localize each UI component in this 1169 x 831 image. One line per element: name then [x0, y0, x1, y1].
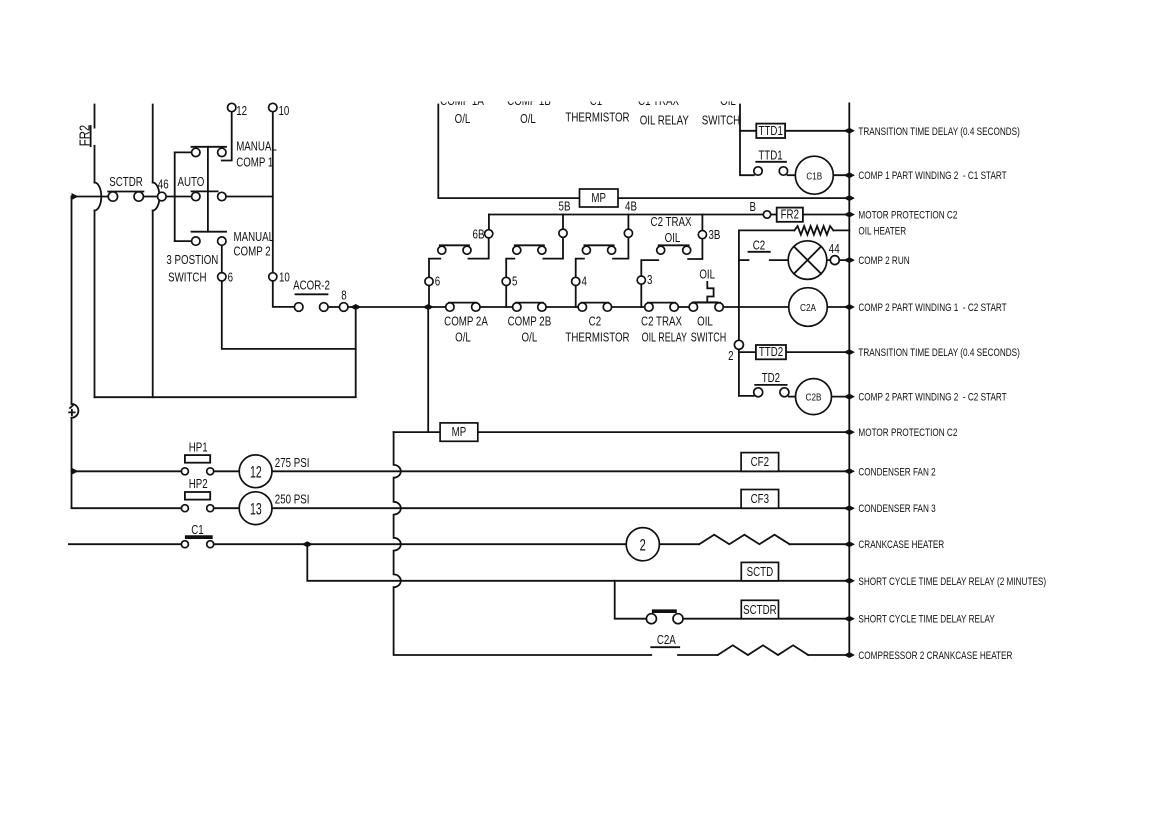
- svg-text:6: 6: [228, 271, 233, 284]
- svg-text:250 PSI: 250 PSI: [275, 493, 310, 506]
- svg-text:C2B: C2B: [806, 391, 822, 403]
- svg-text:MOTOR PROTECTION C2: MOTOR PROTECTION C2: [858, 427, 957, 439]
- svg-text:2: 2: [728, 350, 733, 363]
- svg-text:OIL: OIL: [699, 268, 715, 281]
- svg-text:OIL HEATER: OIL HEATER: [858, 225, 906, 237]
- svg-text:SWITCH: SWITCH: [702, 114, 740, 127]
- svg-text:OIL: OIL: [697, 315, 713, 328]
- svg-text:10: 10: [279, 105, 290, 118]
- svg-text:3B: 3B: [709, 229, 721, 242]
- svg-text:2: 2: [640, 536, 646, 555]
- svg-text:COMP 1 PART WINDING 2 - C1 ST: COMP 1 PART WINDING 2 - C1 START: [858, 170, 1006, 182]
- svg-text:SHORT CYCLE TIME DELAY RELAY: SHORT CYCLE TIME DELAY RELAY: [858, 614, 995, 626]
- svg-text:C2: C2: [753, 240, 765, 253]
- svg-text:12: 12: [250, 462, 262, 481]
- svg-text:46: 46: [158, 178, 169, 191]
- svg-text:275 PSI: 275 PSI: [275, 457, 310, 470]
- svg-text:COMP 2A: COMP 2A: [444, 315, 488, 328]
- svg-text:44: 44: [829, 243, 840, 256]
- svg-text:TTD2: TTD2: [759, 346, 783, 359]
- svg-text:13: 13: [250, 499, 262, 518]
- svg-text:C1B: C1B: [806, 169, 822, 181]
- svg-text:TRANSITION TIME DELAY (0.4 SEC: TRANSITION TIME DELAY (0.4 SECONDS): [858, 126, 1019, 138]
- svg-text:C2 TRAX: C2 TRAX: [651, 216, 692, 229]
- svg-text:HP1: HP1: [189, 441, 208, 454]
- svg-text:AUTO: AUTO: [178, 176, 205, 189]
- svg-text:COMP 2 PART WINDING 1 - C2 ST: COMP 2 PART WINDING 1 - C2 START: [858, 302, 1006, 314]
- svg-text:4: 4: [582, 275, 587, 288]
- svg-text:MOTOR PROTECTION C2: MOTOR PROTECTION C2: [858, 209, 957, 221]
- svg-text:CF2: CF2: [751, 456, 769, 469]
- svg-text:12: 12: [236, 105, 247, 118]
- svg-text:CONDENSER FAN 3: CONDENSER FAN 3: [858, 503, 935, 515]
- svg-text:O/L: O/L: [520, 113, 536, 126]
- svg-text:COMP 2: COMP 2: [234, 245, 271, 258]
- svg-text:C2A: C2A: [657, 634, 676, 647]
- svg-text:HP2: HP2: [189, 478, 208, 491]
- svg-text:COMPRESSOR 2 CRANKCASE HEATER: COMPRESSOR 2 CRANKCASE HEATER: [858, 650, 1012, 662]
- svg-text:MANUAL: MANUAL: [236, 140, 277, 153]
- svg-text:COMP 1: COMP 1: [236, 156, 273, 169]
- svg-text:TRANSITION TIME DELAY (0.4 SEC: TRANSITION TIME DELAY (0.4 SECONDS): [858, 347, 1019, 359]
- svg-text:B: B: [750, 201, 756, 214]
- svg-text:MP: MP: [452, 426, 467, 439]
- svg-text:C2A: C2A: [800, 301, 817, 313]
- svg-text:SHORT CYCLE TIME DELAY RELAY (: SHORT CYCLE TIME DELAY RELAY (2 MINUTES): [858, 576, 1046, 588]
- svg-text:5: 5: [512, 275, 517, 288]
- svg-text:10: 10: [279, 271, 290, 284]
- svg-text:ACOR-2: ACOR-2: [293, 279, 330, 292]
- svg-text:C1: C1: [191, 524, 203, 537]
- svg-text:6B: 6B: [473, 228, 485, 241]
- svg-text:MANUAL: MANUAL: [234, 231, 275, 244]
- svg-text:CONDENSER FAN 2: CONDENSER FAN 2: [858, 466, 935, 478]
- svg-text:6: 6: [435, 275, 440, 288]
- svg-text:3 POSTION: 3 POSTION: [166, 254, 218, 267]
- svg-text:CRANKCASE HEATER: CRANKCASE HEATER: [858, 539, 944, 551]
- svg-text:SWITCH: SWITCH: [168, 271, 206, 284]
- svg-text:OIL: OIL: [665, 232, 681, 245]
- svg-text:SCTDR: SCTDR: [109, 176, 143, 189]
- svg-text:COMP 2 PART WINDING 2 - C2 ST: COMP 2 PART WINDING 2 - C2 START: [858, 392, 1006, 404]
- svg-text:3: 3: [647, 274, 652, 287]
- svg-text:TTD1: TTD1: [758, 149, 782, 162]
- svg-text:5B: 5B: [559, 200, 571, 213]
- svg-text:COMP 2 RUN: COMP 2 RUN: [858, 255, 909, 267]
- svg-text:FR2: FR2: [76, 125, 93, 146]
- svg-text:MP: MP: [591, 192, 606, 205]
- svg-text:OIL RELAY: OIL RELAY: [640, 114, 690, 127]
- svg-text:O/L: O/L: [522, 331, 538, 344]
- svg-text:THERMISTOR: THERMISTOR: [565, 111, 629, 124]
- svg-text:SCTDR: SCTDR: [743, 604, 777, 617]
- svg-text:O/L: O/L: [455, 331, 471, 344]
- svg-text:FR2: FR2: [781, 209, 799, 222]
- svg-text:8: 8: [341, 289, 346, 302]
- svg-text:TTD1: TTD1: [759, 125, 783, 138]
- svg-text:SCTD: SCTD: [747, 566, 774, 579]
- svg-text:C2 TRAX: C2 TRAX: [641, 315, 682, 328]
- svg-text:CF3: CF3: [751, 493, 769, 506]
- svg-text:OIL RELAY: OIL RELAY: [642, 331, 688, 345]
- svg-text:COMP 2B: COMP 2B: [508, 315, 552, 328]
- svg-text:4B: 4B: [625, 200, 637, 213]
- svg-text:TD2: TD2: [762, 372, 780, 385]
- svg-text:C2: C2: [589, 315, 601, 328]
- svg-text:THERMISTOR: THERMISTOR: [565, 331, 629, 344]
- svg-text:SWITCH: SWITCH: [691, 331, 726, 345]
- svg-text:O/L: O/L: [455, 113, 471, 126]
